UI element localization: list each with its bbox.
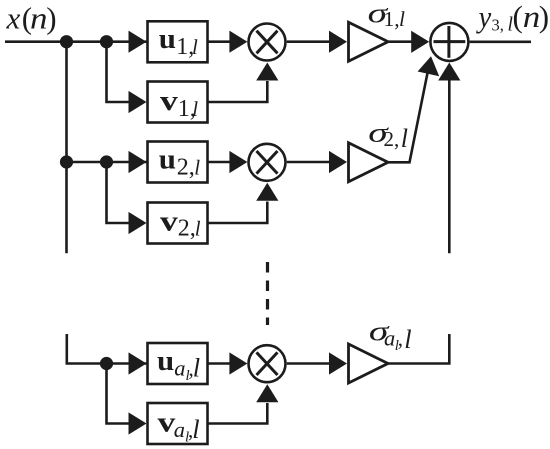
svg-text:l: l — [192, 35, 198, 59]
svg-text:2,: 2, — [177, 154, 195, 180]
svg-text:l: l — [404, 324, 411, 354]
svg-text:a: a — [384, 326, 395, 351]
svg-text:v: v — [160, 205, 178, 237]
svg-text:l: l — [193, 352, 200, 382]
svg-text:y: y — [476, 0, 492, 34]
svg-text:l: l — [401, 124, 408, 153]
svg-text:,: , — [398, 327, 403, 351]
svg-text:2,: 2, — [384, 127, 400, 151]
svg-text:2,: 2, — [178, 216, 196, 242]
svg-text:1,: 1, — [384, 7, 400, 31]
svg-text:v: v — [160, 85, 178, 117]
svg-text:l: l — [399, 7, 405, 31]
svg-text:): ) — [46, 1, 56, 36]
svg-text:l: l — [194, 155, 200, 179]
svg-text:): ) — [539, 0, 549, 34]
svg-text:n: n — [523, 0, 541, 34]
svg-text:x: x — [6, 1, 21, 36]
svg-text:3,: 3, — [492, 15, 504, 34]
svg-text:u: u — [159, 143, 176, 175]
svg-text:l: l — [195, 217, 201, 241]
svg-text:a: a — [174, 355, 185, 380]
svg-text:u: u — [159, 23, 176, 55]
svg-text:u: u — [157, 345, 174, 377]
svg-text:a: a — [174, 417, 185, 442]
svg-text:n: n — [30, 1, 48, 36]
svg-text:l: l — [192, 97, 198, 121]
svg-text:l: l — [192, 414, 199, 444]
svg-text:(: ( — [513, 0, 523, 34]
